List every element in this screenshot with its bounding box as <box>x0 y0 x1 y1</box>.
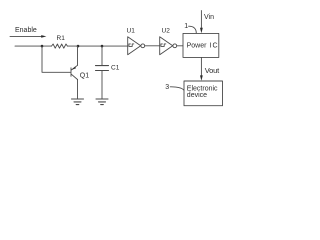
wire collector <box>77 80 79 100</box>
wire after R1 <box>67 45 127 47</box>
wire U2 to Power IC <box>177 45 183 47</box>
svg-text:IC: IC <box>210 43 219 50</box>
capacitor C1 <box>96 66 109 71</box>
resistor R1 <box>52 44 68 48</box>
wire base branch <box>42 46 71 72</box>
svg-text:device: device <box>187 92 207 99</box>
leader pin 3 <box>170 87 184 91</box>
junction C1 node <box>101 45 104 48</box>
svg-text:C1: C1 <box>111 65 120 72</box>
wire C1 bottom <box>101 71 103 99</box>
label Electronic device <box>187 85 218 99</box>
junction base node <box>41 45 44 48</box>
inverter U2 <box>160 37 177 55</box>
wire C1 top <box>101 46 103 65</box>
ground Q1 <box>72 99 84 105</box>
svg-text:U1: U1 <box>127 28 136 35</box>
Enable arrow <box>10 35 46 38</box>
transistor Q1 <box>71 65 78 79</box>
svg-text:Enable: Enable <box>15 27 37 34</box>
svg-text:3: 3 <box>165 84 169 91</box>
svg-text:Power: Power <box>187 43 208 50</box>
svg-text:R1: R1 <box>57 35 66 42</box>
wire U1 to U2 <box>145 45 160 47</box>
inverter U1 <box>128 37 145 55</box>
svg-text:Vout: Vout <box>205 66 220 75</box>
Vout output arrow <box>200 57 203 80</box>
block Power IC <box>183 33 219 57</box>
wire main rail <box>15 45 52 47</box>
svg-text:U2: U2 <box>162 28 171 35</box>
svg-text:Q1: Q1 <box>80 72 89 79</box>
svg-text:Vin: Vin <box>204 14 214 21</box>
block Electronic device <box>184 81 223 106</box>
wire emitter <box>77 46 79 65</box>
ground C1 <box>96 99 108 105</box>
Vin input arrow <box>200 11 203 34</box>
junction emitter node <box>77 45 80 48</box>
leader pin 1 <box>189 26 197 33</box>
svg-text:1: 1 <box>184 23 188 30</box>
